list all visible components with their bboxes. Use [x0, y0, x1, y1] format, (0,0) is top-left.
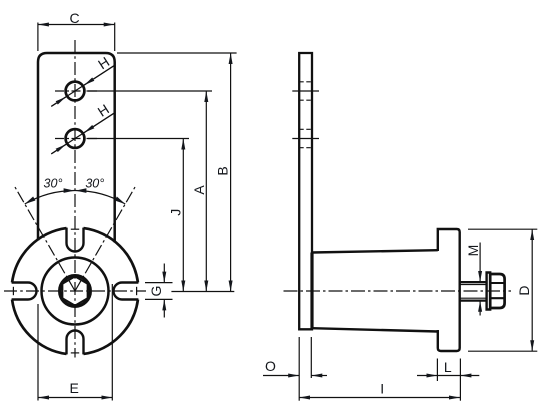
svg-text:C: C [70, 10, 80, 26]
dimension A [87, 91, 213, 292]
hidden lines hole H2 (side) [299, 129, 312, 147]
leader H for hole H1 [51, 65, 114, 106]
dimension I [299, 397, 460, 399]
svg-text:30°: 30° [85, 177, 104, 191]
centerline quadrant tick bottom [71, 352, 79, 354]
arc arrow right-outer [115, 197, 127, 206]
svg-text:M: M [465, 245, 481, 257]
svg-text:A: A [191, 185, 207, 195]
bottom slot [67, 331, 84, 355]
threaded shaft outer lines [460, 282, 487, 301]
svg-text:D: D [516, 285, 532, 295]
top slot [67, 228, 84, 252]
disc inner circle [42, 258, 109, 325]
dimension O [263, 337, 327, 401]
svg-text:H: H [95, 53, 112, 72]
side plate right face / cylinder joint [310, 253, 313, 330]
svg-text:O: O [265, 358, 276, 374]
arc arrow right-inner [75, 188, 86, 193]
30 degree arc dimension [25, 191, 126, 204]
arc arrow left-outer [24, 197, 36, 206]
right 30-degree dash-dot diagonal [75, 187, 135, 291]
arc arrow left-inner [64, 188, 75, 193]
disc horizontal centerline [4, 290, 146, 292]
svg-text:G: G [148, 286, 164, 297]
hidden lines hole H1 (side) [299, 82, 312, 100]
main horizontal centerline (side) [284, 290, 512, 292]
left 30-degree dash-dot diagonal [15, 187, 75, 291]
nut washer collar [487, 273, 491, 310]
hole H2 (front) [66, 129, 85, 148]
hole H1 (front) [66, 82, 85, 101]
hex nut body [490, 274, 504, 308]
nut facet lines [490, 283, 504, 298]
svg-text:I: I [380, 380, 384, 396]
right slot [114, 283, 139, 300]
hole H2 centerline (side) [292, 138, 319, 140]
dimension C [38, 23, 115, 52]
hole H1 centerline (side) [292, 90, 319, 92]
svg-text:J: J [168, 209, 184, 216]
svg-text:30°: 30° [44, 177, 63, 191]
leader H for hole H2 [51, 113, 114, 154]
hole H2 horizontal centerline [53, 138, 97, 140]
dimension G [145, 264, 173, 318]
hole H1 horizontal centerline [53, 90, 97, 92]
disc outer circle (4 thick arcs with slot gaps) [12, 228, 138, 354]
hex hole circle [60, 276, 91, 307]
centerline quadrant tick right [136, 287, 138, 295]
dimension M [479, 243, 481, 316]
cylinder body (side) [312, 250, 438, 331]
threaded shaft root lines [460, 285, 487, 299]
vertical centerline (front) [74, 40, 76, 358]
svg-text:E: E [70, 380, 79, 396]
dimension E [38, 284, 112, 401]
centerline quadrant tick top [71, 228, 79, 230]
plate outline (front view) [38, 53, 115, 243]
dimension J [87, 139, 190, 292]
dimension L [417, 359, 479, 401]
svg-text:L: L [444, 359, 452, 375]
dimension D [468, 229, 537, 351]
svg-text:B: B [214, 166, 230, 175]
hex hole hexagon [62, 276, 87, 305]
centerline quadrant tick left [12, 287, 14, 295]
left slot [12, 283, 37, 300]
flange disc (side) [438, 229, 460, 351]
side plate outline (right view) [299, 53, 312, 329]
dimension B [117, 53, 237, 292]
